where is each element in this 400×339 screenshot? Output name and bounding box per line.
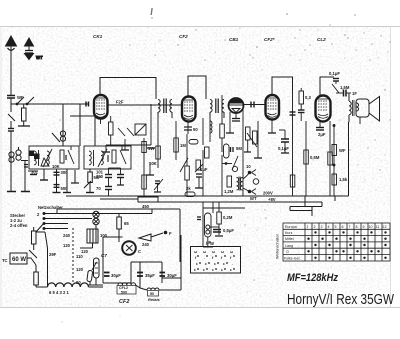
svg-text:240: 240 <box>142 242 150 247</box>
svg-text:MF=128kHz: MF=128kHz <box>287 272 338 284</box>
svg-text:TC: TC <box>2 258 8 263</box>
svg-text:700: 700 <box>96 174 104 179</box>
svg-text:F: F <box>169 231 172 236</box>
svg-text:120: 120 <box>63 243 71 248</box>
svg-text:3: 3 <box>321 225 323 229</box>
svg-text:Lang: Lang <box>285 244 293 248</box>
svg-text:+8V: +8V <box>268 197 276 202</box>
svg-text:9: 9 <box>363 225 365 229</box>
svg-text:Kurz: Kurz <box>285 231 293 235</box>
svg-text:70: 70 <box>96 186 101 191</box>
svg-text:110: 110 <box>76 254 83 259</box>
svg-text:C: C <box>138 249 141 254</box>
svg-text:240: 240 <box>63 233 71 238</box>
svg-text:Folks-Ger.: Folks-Ger. <box>284 257 301 261</box>
svg-text:0,5M: 0,5M <box>310 155 320 160</box>
svg-text:60 W: 60 W <box>12 257 26 263</box>
svg-text:WT: WT <box>250 196 257 201</box>
svg-text:0,5μF: 0,5μF <box>223 228 234 233</box>
svg-text:ɛ: ɛ <box>205 262 207 266</box>
svg-text:ω: ω <box>203 250 206 254</box>
svg-text:.: . <box>204 256 205 260</box>
svg-text:35μF: 35μF <box>145 273 155 278</box>
svg-text:ω: ω <box>230 250 233 254</box>
svg-text:65: 65 <box>124 221 129 226</box>
svg-text:Relais: Relais <box>148 297 161 302</box>
svg-text:CF2: CF2 <box>179 34 188 39</box>
svg-text:ɛ: ɛ <box>221 268 223 272</box>
svg-text:2: 2 <box>314 225 316 229</box>
svg-text:ɛ: ɛ <box>196 262 198 266</box>
svg-text:1,5M: 1,5M <box>340 85 350 90</box>
svg-text:HornyV/I Rex 35GW: HornyV/I Rex 35GW <box>287 292 394 308</box>
svg-text:1,5k: 1,5k <box>339 177 348 182</box>
svg-text:ɛ: ɛ <box>194 268 196 272</box>
svg-text:1: 1 <box>307 225 309 229</box>
svg-text:8: 8 <box>356 225 358 229</box>
svg-text:WT: WT <box>36 55 43 60</box>
svg-text:50: 50 <box>150 292 154 296</box>
svg-text:6 5 4 3 2 1: 6 5 4 3 2 1 <box>49 290 69 295</box>
svg-text:ω: ω <box>194 250 197 254</box>
svg-text:WF: WF <box>339 148 346 153</box>
svg-text:F2F: F2F <box>116 100 124 105</box>
svg-text:C7: C7 <box>101 253 107 258</box>
svg-text:1F: 1F <box>352 91 357 96</box>
svg-text:ɛ: ɛ <box>212 268 214 272</box>
svg-text:500: 500 <box>121 290 127 294</box>
svg-text:1μF: 1μF <box>200 167 208 172</box>
svg-text:O: O <box>286 250 289 254</box>
svg-text:2-4 offen: 2-4 offen <box>10 223 28 228</box>
svg-text:ω: ω <box>212 250 215 254</box>
svg-text:10K: 10K <box>149 161 157 166</box>
svg-text:.: . <box>232 262 233 266</box>
svg-text:30μF: 30μF <box>167 273 177 278</box>
svg-text:120: 120 <box>76 267 84 272</box>
svg-text:11: 11 <box>376 225 380 229</box>
svg-text:1M: 1M <box>180 143 186 148</box>
svg-text:10: 10 <box>246 164 251 169</box>
svg-text:4: 4 <box>328 225 330 229</box>
svg-text:30μF: 30μF <box>111 273 121 278</box>
svg-text:Europa: Europa <box>285 225 297 229</box>
svg-text:5M: 5M <box>236 146 242 151</box>
svg-text:ɛ: ɛ <box>223 262 225 266</box>
svg-text:CB1: CB1 <box>229 37 239 42</box>
svg-text:CL2: CL2 <box>317 37 326 42</box>
svg-text:12: 12 <box>383 225 387 229</box>
svg-text:0,2M: 0,2M <box>223 215 233 220</box>
svg-text:1W: 1W <box>148 146 154 151</box>
svg-text:0,1μF: 0,1μF <box>278 146 289 151</box>
svg-text:ɛ: ɛ <box>214 262 216 266</box>
svg-text:W: W <box>210 241 214 246</box>
svg-text:0,1μF: 0,1μF <box>329 71 340 76</box>
svg-text:120: 120 <box>81 249 89 254</box>
svg-text:450: 450 <box>142 204 150 209</box>
svg-text:7: 7 <box>349 225 351 229</box>
svg-text:29F: 29F <box>49 252 57 257</box>
svg-text:CK1: CK1 <box>93 34 103 39</box>
svg-text:CF2*: CF2* <box>264 37 275 42</box>
svg-text:50: 50 <box>193 127 198 132</box>
svg-text:CF2: CF2 <box>119 299 129 305</box>
svg-text:2μF: 2μF <box>318 132 326 137</box>
svg-text:ɛ: ɛ <box>230 268 232 272</box>
svg-text:6: 6 <box>342 225 344 229</box>
svg-text:ω: ω <box>221 250 224 254</box>
svg-text:ɛ: ɛ <box>203 268 205 272</box>
svg-text:200V: 200V <box>263 191 273 196</box>
svg-text:Wellenschalter: Wellenschalter <box>276 233 280 259</box>
svg-text:10: 10 <box>369 225 373 229</box>
svg-text:Mittel: Mittel <box>285 237 294 241</box>
svg-text:10K: 10K <box>52 164 60 169</box>
svg-text:5: 5 <box>335 225 337 229</box>
svg-text:301: 301 <box>31 170 39 175</box>
svg-text:1,2M: 1,2M <box>224 189 234 194</box>
svg-text:0,3: 0,3 <box>305 95 311 100</box>
